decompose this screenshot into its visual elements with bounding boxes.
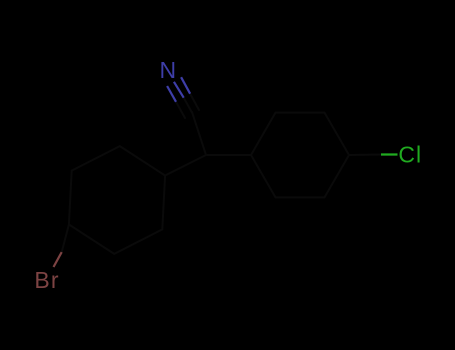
bond to Cl (green half) — [381, 153, 398, 155]
svg-text:Cl: Cl — [398, 141, 422, 167]
wire C2-left ring — [165, 155, 206, 176]
benzene ring left — [69, 146, 165, 254]
wire C1-C2 — [192, 112, 206, 155]
ghost skeleton (near-black bonds) — [62, 94, 381, 254]
triple bond C1#N (blue halves) — [167, 77, 190, 102]
wire C2-right ring — [206, 154, 251, 156]
triple bond dark continuations — [176, 102, 185, 118]
wire ring-Cl (dark half) — [349, 154, 381, 157]
svg-text:Br: Br — [34, 267, 59, 293]
svg-text:N: N — [160, 57, 177, 83]
bond to Br (red half) — [54, 252, 62, 267]
benzene ring right — [251, 113, 349, 198]
wire ring-Br (dark half) — [62, 225, 69, 253]
